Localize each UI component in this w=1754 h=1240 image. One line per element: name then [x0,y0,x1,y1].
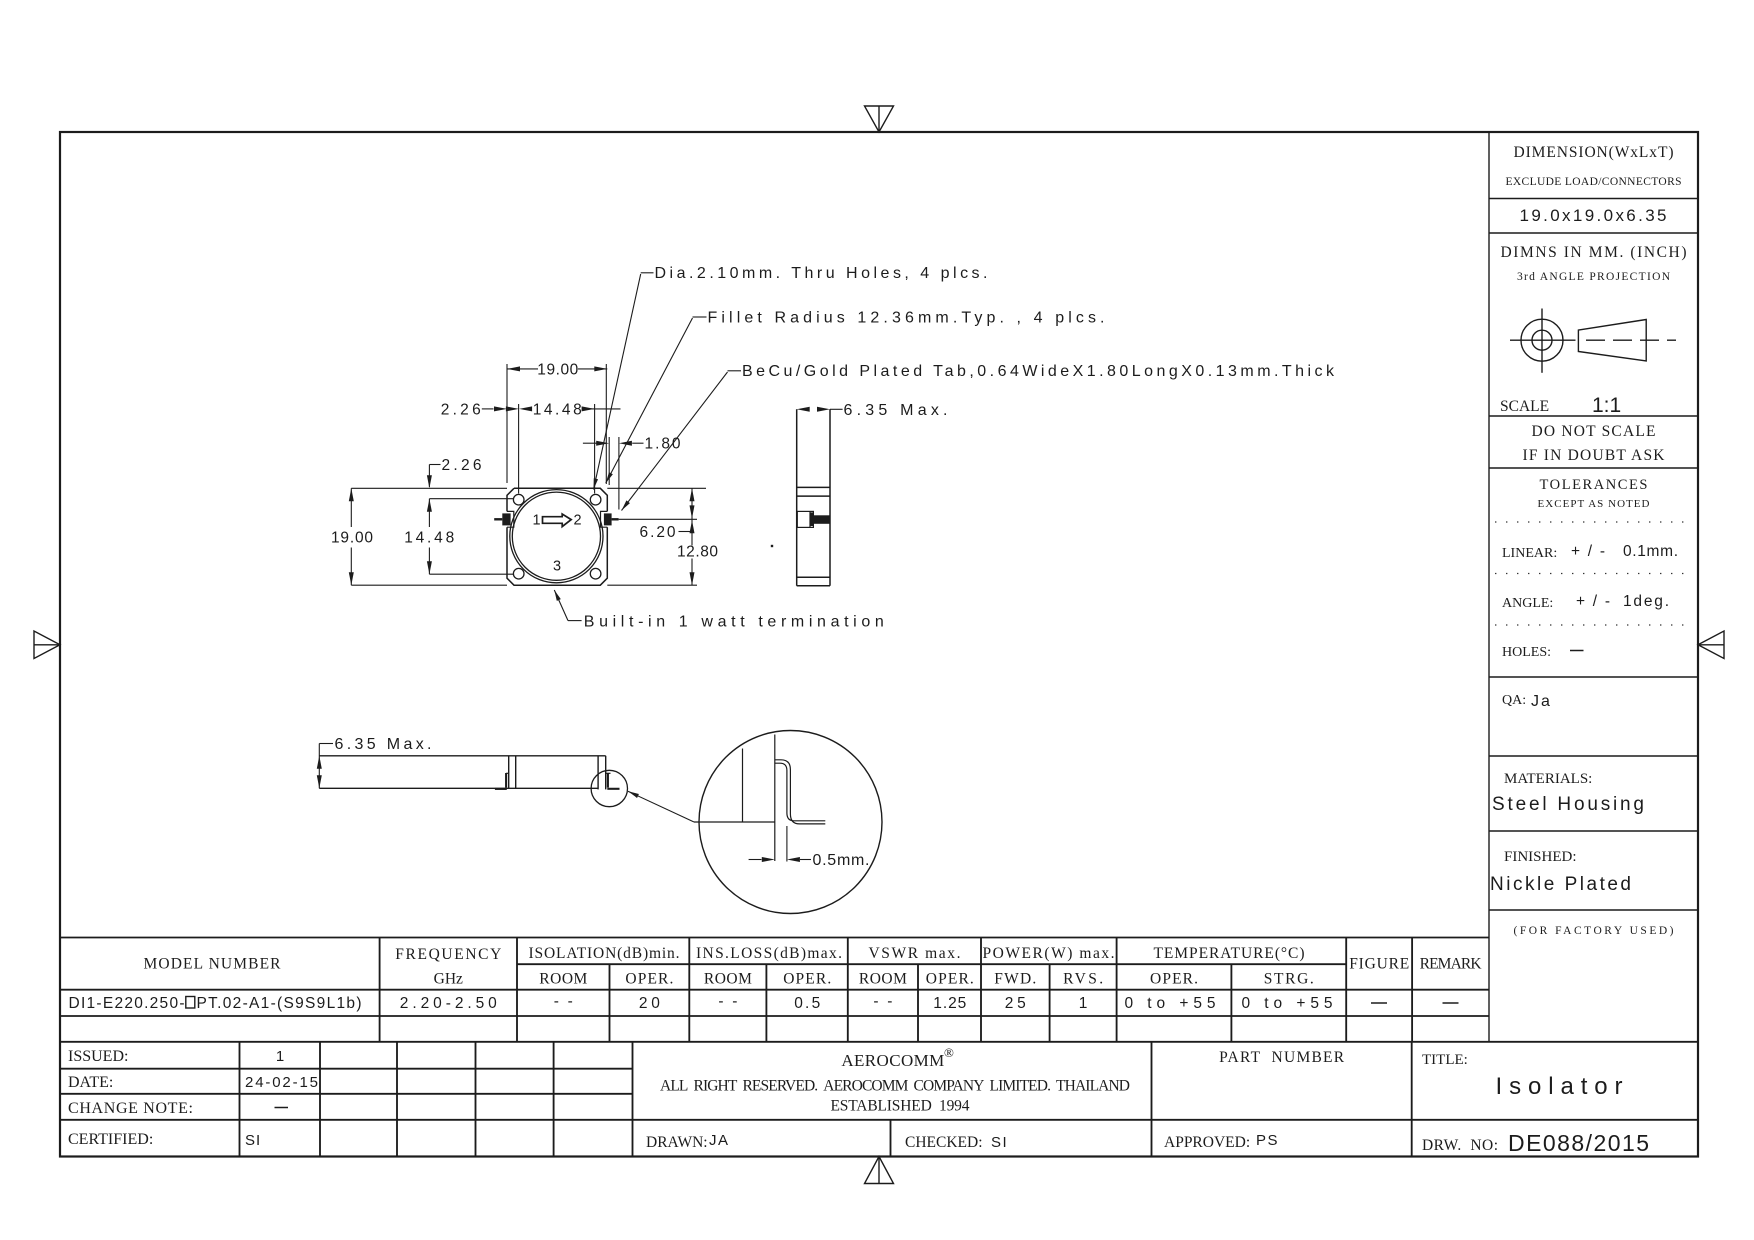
dimension 2.26 vertical callout [429,465,440,488]
svg-text:®: ® [944,1045,954,1060]
svg-text:Ja: Ja [1531,693,1552,710]
svg-text:EXCEPT AS NOTED: EXCEPT AS NOTED [1538,498,1650,510]
svg-text:1.80: 1.80 [645,436,681,453]
detail balloon circle [591,770,627,806]
svg-text:IF IN DOUBT ASK: IF IN DOUBT ASK [1523,447,1666,464]
svg-text:3rd ANGLE PROJECTION: 3rd ANGLE PROJECTION [1517,271,1671,283]
svg-text:1: 1 [532,513,540,529]
3rd angle projection symbol [1510,309,1676,373]
dimension 14.48 vertical [429,499,513,575]
svg-text:FIGURE: FIGURE [1349,956,1409,973]
svg-text:14.48: 14.48 [533,401,582,418]
svg-text:12.80: 12.80 [677,544,718,561]
svg-text:PT.02-A1-(S9S9L1b): PT.02-A1-(S9S9L1b) [197,995,362,1012]
svg-text:19.00: 19.00 [331,530,373,547]
side view tab recess [797,511,813,527]
svg-text:OPER.: OPER. [783,971,831,988]
svg-text:GHz: GHz [434,971,463,988]
svg-text:TOLERANCES: TOLERANCES [1540,477,1648,493]
leader label Dia.2.10mm thru holes [594,273,654,490]
svg-text:ALL RIGHT RESERVED. AEROCOM: ALL RIGHT RESERVED. AEROCOMM COMPANY LIM… [660,1078,1130,1095]
svg-text:14.48: 14.48 [404,530,454,547]
detail balloon leader [628,791,694,822]
svg-text:DIMNS IN MM. (INCH): DIMNS IN MM. (INCH) [1501,244,1687,261]
dimension 19.00 vertical left [351,488,507,585]
top view flange outline [507,488,607,585]
svg-text:ESTABLISHED 1994: ESTABLISHED 1994 [831,1098,970,1115]
svg-text:0.5mm.: 0.5mm. [813,852,870,869]
svg-text:1.25: 1.25 [933,995,966,1012]
left tab [502,513,510,525]
svg-text:CERTIFIED:: CERTIFIED: [68,1131,153,1148]
svg-text:6.20: 6.20 [640,524,676,541]
centre mark dot [771,545,773,547]
change note dash value [275,1107,289,1109]
svg-text:REMARK: REMARK [1420,956,1483,973]
svg-text:PART NUMBER: PART NUMBER [1219,1049,1345,1066]
registration mark top [865,106,894,132]
top view body circles [510,490,603,583]
svg-text:+/-: +/- [1571,543,1605,560]
svg-text:0.5: 0.5 [794,995,820,1012]
svg-text:DRW. NO:: DRW. NO: [1422,1137,1498,1154]
svg-text:3: 3 [553,559,561,575]
svg-text:0 to +55: 0 to +55 [1242,995,1333,1012]
svg-text:MODEL NUMBER: MODEL NUMBER [144,956,282,973]
svg-text:INS.LOSS(dB)max.: INS.LOSS(dB)max. [696,945,842,962]
svg-text:DATE:: DATE: [68,1074,113,1091]
right tab [604,513,612,525]
bottom profile view outline [319,756,605,790]
model number placeholder box [186,997,195,1009]
svg-text:HOLES:: HOLES: [1502,645,1551,660]
spec table headers [144,945,1483,988]
dimension 0.5mm [749,859,811,861]
svg-text:6.35 Max.: 6.35 Max. [335,736,432,753]
detail housing edge line [742,749,744,823]
sheet frame [60,132,1698,1157]
svg-text:APPROVED:: APPROVED: [1164,1134,1250,1151]
svg-text:MATERIALS:: MATERIALS: [1504,771,1592,787]
registration mark left [34,631,60,659]
svg-text:SI: SI [245,1132,261,1149]
title block grid [60,1042,1698,1157]
svg-text:1: 1 [1079,995,1088,1012]
svg-text:ISOLATION(dB)min.: ISOLATION(dB)min. [529,945,680,962]
svg-text:2.26: 2.26 [441,401,481,418]
side view tab [810,512,814,526]
svg-text:1:1: 1:1 [1592,394,1621,417]
svg-text:EXCLUDE LOAD/CONNECTORS: EXCLUDE LOAD/CONNECTORS [1506,176,1682,188]
leader label BeCu tab [622,371,742,511]
figure dash [1371,1002,1387,1004]
dotted tolerance separators [1495,522,1691,625]
svg-text:1deg.: 1deg. [1623,593,1669,610]
detail view circle [699,731,882,914]
svg-text:+/-: +/- [1576,593,1610,610]
registration mark bottom [865,1157,894,1184]
svg-text:CHECKED:: CHECKED: [905,1134,983,1151]
right info panel grid [1489,132,1698,1042]
leader label built-in termination [554,590,581,621]
dimension 6.35 Max side view [830,408,843,410]
detail 0.5mm extension line [786,826,788,862]
side view outline [797,409,830,586]
detail housing face line [774,735,776,862]
detail tab bend profile [775,760,826,824]
svg-text:DRAWN:: DRAWN: [646,1134,708,1151]
svg-text:OPER.: OPER. [625,971,673,988]
svg-text:0.1mm.: 0.1mm. [1623,543,1678,560]
svg-text:OPER.: OPER. [1150,971,1198,988]
svg-text:QA:: QA: [1502,693,1526,708]
bottom view left tab [495,773,509,789]
svg-text:0 to +55: 0 to +55 [1125,995,1216,1012]
svg-text:SCALE: SCALE [1500,398,1549,415]
right tab notch [601,511,608,527]
panel value texts (CAD style) [1490,206,1678,895]
svg-text:SI: SI [991,1134,1008,1151]
spec table data row [69,993,1333,1012]
dimension 6.35 Max bottom view [319,744,333,789]
dimension 2.26 / 14.48 horizontal [482,404,621,494]
svg-text:DIMENSION(WxLxT): DIMENSION(WxLxT) [1514,144,1674,161]
svg-text:ROOM: ROOM [859,971,907,988]
svg-text:2: 2 [573,513,581,529]
svg-text:LINEAR:: LINEAR: [1502,546,1557,561]
issue table labels [68,1048,193,1148]
svg-text:VSWR max.: VSWR max. [869,945,961,962]
svg-text:JA: JA [709,1132,730,1149]
svg-text:PS: PS [1256,1132,1279,1149]
svg-text:1: 1 [276,1048,284,1065]
svg-text:Built-in 1 watt termination: Built-in 1 watt termination [584,614,884,631]
left tab notch [507,511,514,527]
svg-text:OPER.: OPER. [926,971,974,988]
leader label fillet radius [606,317,707,483]
svg-text:FWD.: FWD. [994,971,1036,988]
svg-text:ROOM: ROOM [539,971,587,988]
svg-text:FINISHED:: FINISHED: [1504,849,1577,865]
svg-text:CHANGE NOTE:: CHANGE NOTE: [68,1100,193,1117]
svg-text:AEROCOMM: AEROCOMM [841,1051,944,1070]
title and drawing number values [709,1073,1649,1156]
svg-text:POWER(W) max.: POWER(W) max. [983,945,1115,962]
mounting holes [513,494,600,579]
svg-text:TEMPERATURE(°C): TEMPERATURE(°C) [1154,945,1305,962]
svg-text:TITLE:: TITLE: [1422,1052,1468,1068]
svg-text:Steel Housing: Steel Housing [1492,794,1644,815]
svg-text:DE088/2015: DE088/2015 [1508,1130,1649,1156]
bottom view right tab [606,773,620,789]
svg-text:DI1-E220.250-: DI1-E220.250- [69,995,185,1012]
svg-text:6.35 Max.: 6.35 Max. [844,402,948,419]
registration mark right [1698,631,1724,659]
svg-text:19.00: 19.00 [537,361,578,378]
svg-text:2.20-2.50: 2.20-2.50 [400,995,497,1012]
svg-text:STRG.: STRG. [1264,971,1314,988]
panel header texts [1500,144,1687,937]
HOLES dash value [1570,650,1584,652]
dimension 1.80 [583,437,644,510]
remark dash [1443,1002,1459,1004]
svg-text:ISSUED:: ISSUED: [68,1048,128,1065]
issue table values [245,1048,318,1149]
dimension 19.00 horizontal top [507,364,607,484]
dimension 6.20 and 12.80 vertical right [607,488,706,585]
svg-text:ANGLE:: ANGLE: [1502,596,1553,611]
company block [646,1045,1498,1154]
svg-text:24-02-15: 24-02-15 [245,1074,318,1091]
svg-text:FREQUENCY: FREQUENCY [395,946,501,963]
port labels 1 and 2 with flow arrow [532,513,581,575]
svg-text:2.26: 2.26 [442,457,482,474]
detail bottom face line [694,821,775,823]
spec table grid [60,938,1698,1042]
svg-text:DO NOT SCALE: DO NOT SCALE [1532,423,1656,440]
svg-text:ROOM: ROOM [704,971,752,988]
